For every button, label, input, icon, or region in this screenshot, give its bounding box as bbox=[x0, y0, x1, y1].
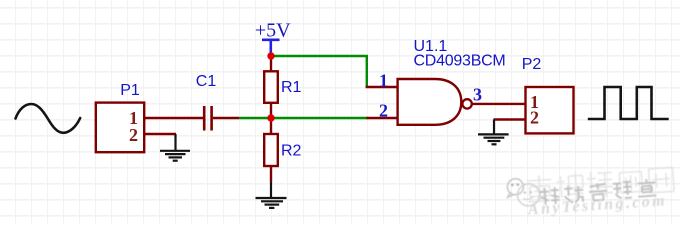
logo bubbles bbox=[506, 177, 540, 207]
wire P1 pin1 to C1 bbox=[144, 117, 203, 119]
svg-text:C1: C1 bbox=[196, 73, 217, 90]
wire P2 pin2 bbox=[494, 118, 526, 120]
wire C1 right bbox=[213, 117, 239, 119]
wire gate input2 red part bbox=[367, 117, 399, 119]
square wave output symbol bbox=[588, 87, 669, 119]
svg-text:3: 3 bbox=[473, 85, 482, 105]
connector P1 bbox=[96, 103, 144, 153]
wire +5V node down to R1 bbox=[270, 54, 272, 72]
ground (P1 pin2) bbox=[160, 134, 190, 161]
svg-text:R2: R2 bbox=[281, 143, 302, 160]
wire R1 to R2 bbox=[270, 103, 272, 134]
junction +5V node bbox=[267, 52, 274, 59]
wire (green) C1 node to gate input 2 bbox=[239, 117, 368, 119]
svg-text:1: 1 bbox=[379, 71, 388, 91]
wire gate output to P2 bbox=[472, 103, 525, 105]
NAND gate U1.1 bbox=[398, 79, 462, 125]
power bar symbol bbox=[262, 40, 280, 54]
svg-text:P1: P1 bbox=[120, 82, 140, 99]
solid CJK text layer bbox=[539, 179, 656, 206]
wire (green) +5V node to gate input 1 bbox=[271, 56, 367, 87]
svg-text:P2: P2 bbox=[522, 56, 542, 73]
svg-text:2: 2 bbox=[530, 108, 539, 128]
junction C1/R1/R2 node bbox=[267, 114, 274, 121]
connector P2 bbox=[526, 87, 574, 133]
U1.1 output bubble bbox=[462, 99, 471, 108]
ground (R2) bbox=[256, 182, 287, 208]
svg-text:2: 2 bbox=[379, 101, 388, 121]
resistor R1 bbox=[264, 71, 278, 103]
sine wave input symbol bbox=[16, 104, 81, 133]
resistor R2 bbox=[264, 134, 278, 166]
outline CJK text layer bbox=[527, 166, 674, 202]
watermark bbox=[506, 166, 675, 219]
capacitor C1 bbox=[204, 106, 211, 131]
svg-text:2: 2 bbox=[129, 125, 138, 145]
svg-text:+5V: +5V bbox=[255, 20, 291, 42]
wire R2 down bbox=[270, 166, 272, 182]
ground (P2 pin2) bbox=[478, 120, 509, 145]
wire P1 pin2 bbox=[144, 133, 176, 135]
svg-text:CD4093BCM: CD4093BCM bbox=[414, 53, 506, 70]
svg-text:R1: R1 bbox=[281, 79, 302, 96]
wire gate input1 red part bbox=[366, 86, 398, 88]
